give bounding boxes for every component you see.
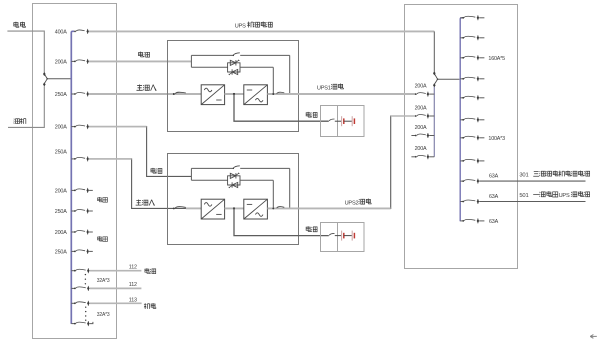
svg-text:250A: 250A — [55, 149, 67, 155]
breaker 200A #2 — [415, 115, 417, 117]
bus left cabinet (blue) — [71, 31, 74, 324]
breaker 200A (left bus row 2) — [71, 60, 74, 62]
svg-text:400A: 400A — [55, 30, 67, 36]
breaker right row 2 — [460, 37, 463, 39]
UPS1 wire inverter to output — [267, 93, 415, 95]
wire feeder 301 — [479, 180, 585, 182]
breaker 32A*3 pole3 (stub) — [71, 323, 74, 325]
UPS1 static bypass drop — [272, 67, 274, 94]
wire 400A row to external bypass line — [89, 30, 434, 32]
UPS2 output switch — [277, 207, 285, 209]
breaker right row 10 — [460, 201, 463, 203]
wire stub right row 4 — [479, 78, 484, 80]
svg-text:200A: 200A — [55, 189, 67, 195]
wire 112 feeder b — [90, 287, 142, 289]
UPS2 bypass drop to output — [289, 168, 291, 208]
wire stub right row 5 — [479, 97, 484, 99]
wire changeover to bus — [47, 78, 70, 80]
UPS2 thyristor pair — [230, 173, 236, 178]
UPS2 maintenance bypass switch — [191, 167, 233, 169]
UPS2 wire inverter to output — [267, 207, 298, 209]
UPS2 static bypass node — [272, 207, 274, 209]
svg-text:UPS: UPS — [559, 193, 570, 199]
breaker right row 8 — [460, 160, 463, 162]
svg-text:63A: 63A — [489, 174, 499, 180]
breaker right row 3 — [460, 57, 463, 59]
svg-text:200A: 200A — [55, 60, 67, 66]
breaker 32A*3 pole3 (112) — [71, 287, 74, 289]
UPS1 output switch — [277, 92, 285, 94]
svg-text:32A*3: 32A*3 — [97, 278, 110, 284]
breaker 200A (left bus row 8) — [71, 231, 74, 233]
changeover switch right (bypass/UPS) — [433, 71, 436, 75]
wire UPS2 output band top — [391, 115, 416, 117]
wire changeover to right bus — [438, 78, 460, 80]
breaker 32A*3 pole1 (113 水泵) — [71, 302, 74, 304]
breaker 200A (left bus row 6) — [71, 189, 74, 191]
changeover switch Q0 mains/generator — [43, 72, 46, 76]
breaker right row 4 — [460, 78, 463, 80]
wire UPS2 bypass feed L-route — [89, 127, 191, 177]
UPS1 bypass drop to output — [289, 55, 291, 94]
UPS1 wire input to rectifier — [186, 93, 201, 95]
UPS1 input breaker — [173, 93, 175, 95]
label 主输入 UPS2 — [136, 200, 155, 206]
wire 200A row3 stub — [411, 135, 415, 137]
pole link dots 2 — [85, 307, 86, 308]
breaker 200A #1 — [415, 93, 417, 95]
svg-text:32A*3: 32A*3 — [97, 312, 110, 318]
wire UPS1 main feed — [89, 93, 201, 95]
bus 200A column — [433, 87, 435, 157]
breaker right row 5 — [460, 97, 463, 99]
label 旁路 UPS1 — [139, 52, 150, 58]
UPS2 rectifier (~/=) — [201, 199, 224, 219]
wire spare stub — [89, 189, 93, 191]
UPS1 rectifier (~/=) — [201, 85, 224, 105]
enclosure: main LV distribution cabinet (left) — [33, 4, 117, 339]
svg-text:113: 113 — [129, 298, 137, 304]
node 市电 (mains) label — [14, 22, 26, 28]
svg-text:200A: 200A — [55, 125, 67, 131]
breaker right row 9 — [460, 180, 463, 182]
UPS1 maintenance bypass switch — [191, 54, 233, 56]
UPS1 battery cabinet — [321, 106, 365, 137]
pole link dots — [85, 274, 86, 275]
bus right cabinet (blue) — [460, 18, 462, 221]
wire stub right row 1 — [479, 17, 484, 19]
label 主输入 UPS1 — [136, 84, 156, 90]
wire bypass vertical to right changeover — [433, 31, 435, 71]
wire stub right row 2 — [479, 37, 484, 39]
wire spare stub — [89, 210, 93, 212]
breaker 200A #4 — [415, 156, 417, 158]
wire generator incoming — [8, 86, 44, 127]
svg-text:200A: 200A — [415, 105, 427, 111]
svg-text:UPS2: UPS2 — [345, 200, 359, 206]
breaker 250A (left bus row 5) — [71, 158, 74, 160]
breaker 250A (left bus row 7) — [71, 210, 74, 212]
svg-text:63A: 63A — [489, 219, 499, 225]
svg-text:501: 501 — [519, 193, 528, 199]
breaker right row 1 — [460, 17, 463, 19]
UPS1 cabinet box — [168, 41, 299, 132]
breaker right row 6 — [460, 119, 463, 121]
breaker right row 7 — [460, 137, 463, 139]
label 水泵 (pump) — [144, 303, 156, 309]
UPS2 static bypass drop — [272, 180, 274, 208]
wire UPS2 output L-route — [299, 116, 416, 208]
wire stub right row 3 — [479, 57, 484, 59]
svg-text:250A: 250A — [55, 250, 67, 256]
svg-text:250A: 250A — [55, 92, 67, 98]
wire stub right row 7 — [479, 137, 484, 139]
UPS1 wire rectifier to inverter — [225, 93, 244, 95]
label 备用 (spare) 2 — [98, 236, 108, 241]
wire feeder 501 — [479, 201, 585, 203]
breaker 250A (left bus row 9) — [71, 250, 74, 252]
wire stub — [90, 322, 93, 324]
wire 112 feeder a — [90, 270, 142, 272]
UPS2 battery cabinet — [321, 223, 365, 252]
UPS1 DC node — [233, 93, 235, 95]
UPS2 battery cells — [341, 231, 343, 241]
UPS1 static switch wires — [191, 66, 227, 68]
wire 113 feeder — [90, 302, 142, 304]
UPS1 static bypass node — [272, 93, 274, 95]
svg-text:200A: 200A — [415, 83, 427, 89]
UPS1 inverter (=/~) — [244, 85, 268, 105]
wire UPS1 bypass feed — [89, 60, 191, 62]
UPS2 wire rectifier to inverter — [225, 207, 244, 209]
breaker 400A (left bus row 1) — [74, 31, 76, 33]
label 旁路 UPS2 — [151, 168, 162, 174]
svg-text:250A: 250A — [55, 209, 67, 215]
UPS1 battery breaker — [329, 119, 334, 121]
breaker 250A (left bus row 3) — [71, 93, 74, 95]
svg-text:UPS: UPS — [235, 23, 246, 29]
wire mains incoming — [7, 31, 44, 72]
UPS1 battery feed — [234, 94, 329, 121]
breaker 200A #3 — [415, 135, 417, 137]
UPS2 input breaker — [173, 207, 175, 209]
UPS2 bypass branch vertical — [190, 168, 192, 180]
svg-text:200A: 200A — [415, 125, 427, 131]
svg-text:100A*3: 100A*3 — [488, 136, 505, 142]
wire spare stub — [89, 231, 93, 233]
breaker 32A*3 pole1 (112 空调) — [71, 270, 74, 272]
UPS2 cabinet box — [168, 154, 299, 245]
UPS1 bypass branch vertical — [190, 55, 192, 67]
UPS2 static switch wires — [191, 179, 227, 181]
UPS2 battery feed — [234, 208, 329, 235]
svg-text:200A: 200A — [55, 230, 67, 236]
wire UPS2 main feed band — [89, 158, 132, 160]
wire spare stub — [89, 250, 93, 252]
UPS1 battery cells — [341, 116, 343, 126]
wire UPS2 main feed L-route — [89, 159, 201, 209]
UPS1 thyristor pair — [230, 60, 236, 65]
wire UPS2 bypass feed band — [89, 126, 147, 128]
UPS2 inverter (=/~) — [244, 199, 268, 219]
label 电池 UPS2 — [306, 226, 317, 232]
svg-text:63A: 63A — [489, 194, 499, 200]
wire stub right row 11 — [479, 220, 484, 222]
UPS2 wire input to rectifier — [186, 207, 201, 209]
enclosure: UPS output distribution cabinet (right) — [405, 5, 518, 269]
wire stub right row 6 — [479, 119, 484, 121]
label 空调 (A/C) — [145, 268, 156, 273]
wire 200A row4 stub — [411, 156, 415, 158]
breaker right row 11 — [460, 220, 463, 222]
svg-text:160A*5: 160A*5 — [488, 56, 505, 62]
node 油机 (generator) label — [14, 118, 26, 124]
wire UPS2 output band — [299, 207, 391, 209]
svg-text:112: 112 — [129, 265, 137, 271]
label 电池 UPS1 — [306, 112, 317, 118]
svg-text:UPS1: UPS1 — [317, 85, 331, 91]
svg-text:301: 301 — [519, 172, 528, 178]
wire stub right row 8 — [479, 160, 484, 162]
label 备用 (spare) 1 — [98, 197, 108, 202]
svg-text:200A: 200A — [415, 146, 427, 152]
UPS2 DC node — [233, 207, 235, 209]
UPS2 battery breaker — [329, 233, 334, 235]
svg-text:112: 112 — [129, 282, 137, 288]
breaker 200A (left bus row 4) — [71, 126, 74, 128]
mark scroll arrow — [590, 335, 597, 339]
